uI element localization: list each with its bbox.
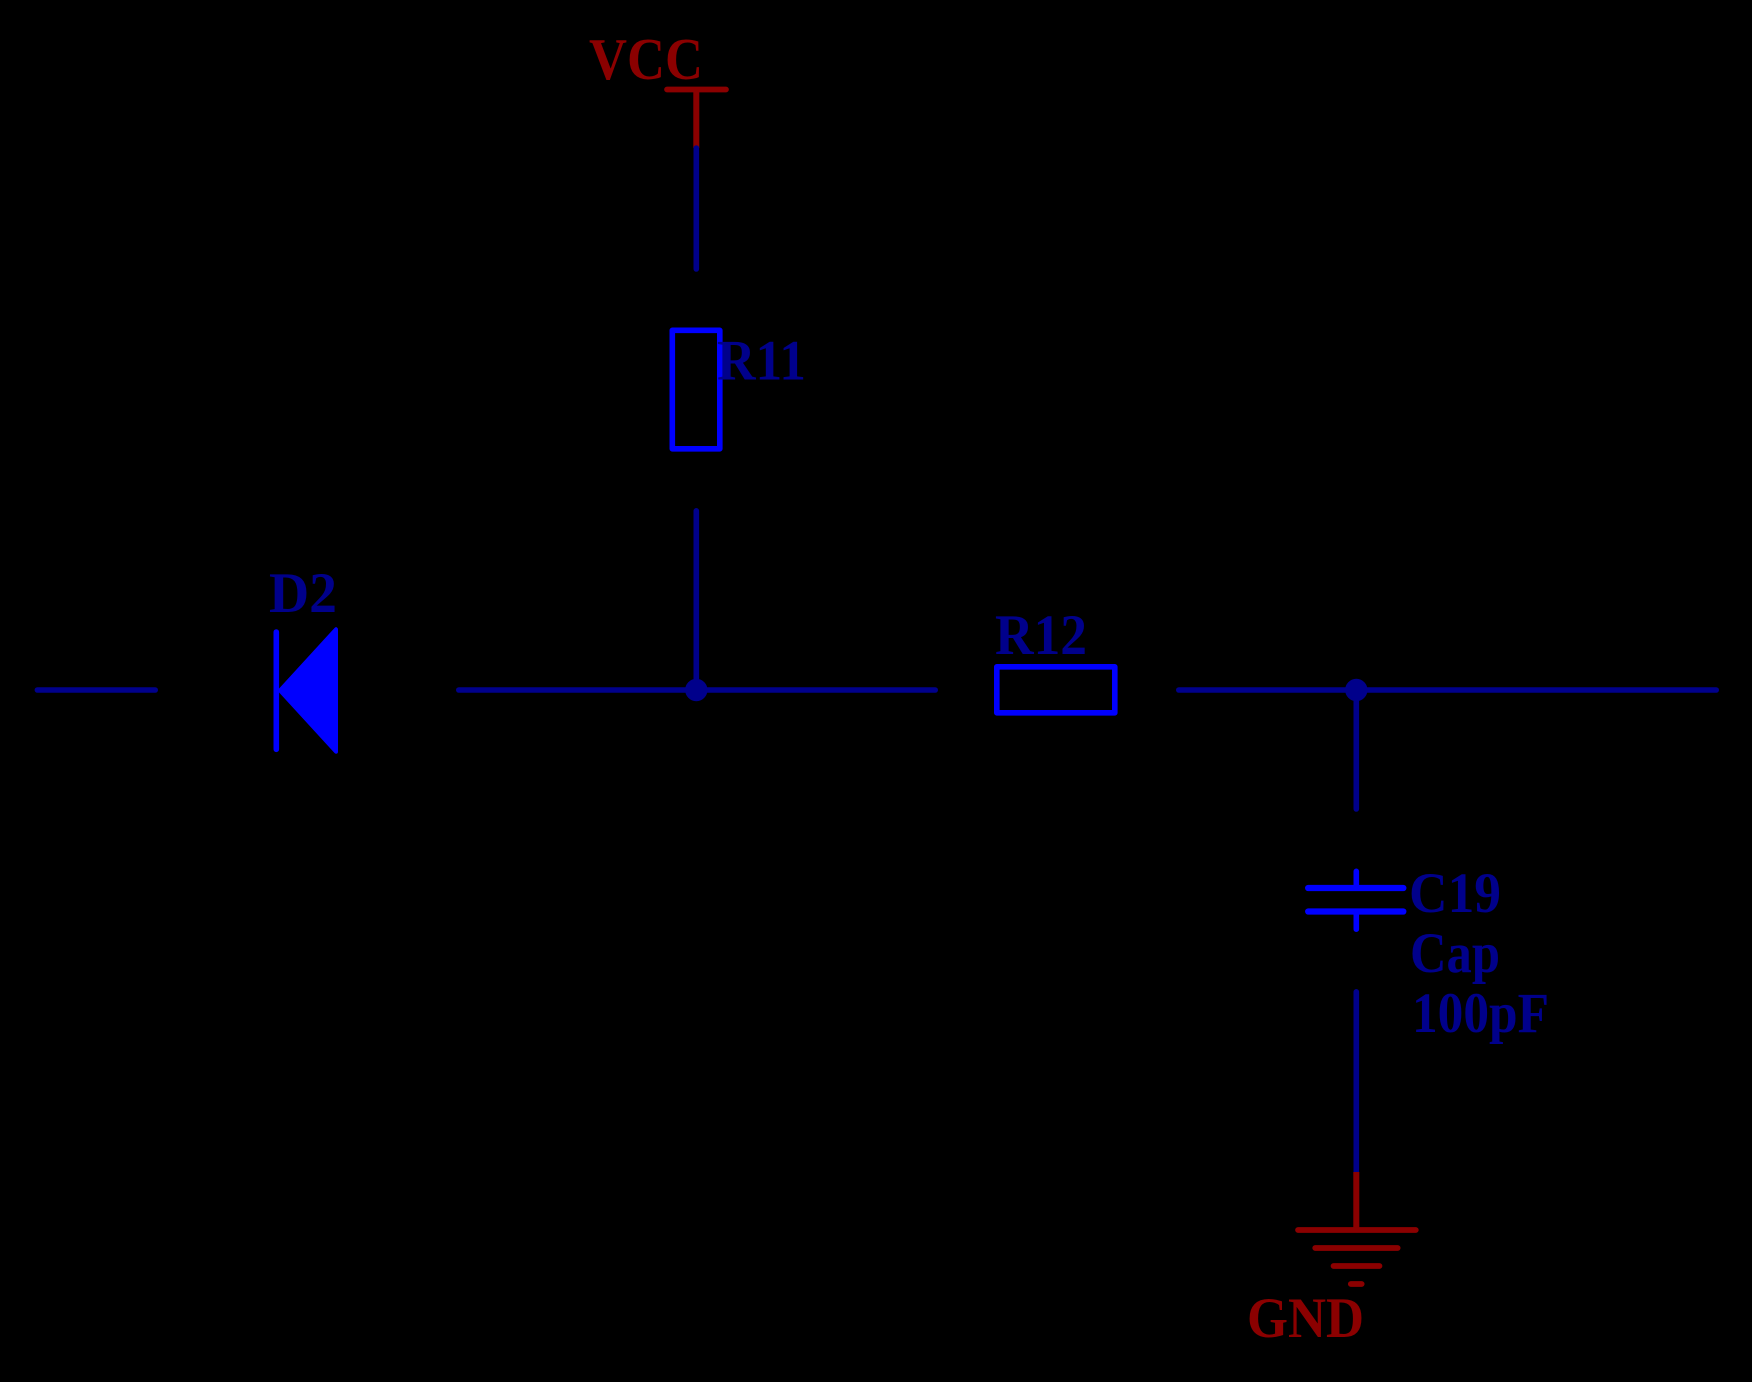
wire node B to C19: [1354, 690, 1360, 809]
wire diode to node A: [459, 687, 935, 693]
svg-text:100pF: 100pF: [1412, 982, 1549, 1045]
wire R12 to node B and right stub: [1179, 687, 1716, 693]
node A junction dot: [685, 679, 707, 701]
resistor R11: [672, 330, 720, 449]
wire R11 to node A: [693, 511, 699, 690]
anode triangle: [280, 629, 336, 751]
GND bar 2: [1315, 1245, 1398, 1251]
GND stem: [1353, 1172, 1359, 1230]
svg-text:R12: R12: [995, 604, 1087, 667]
GND bar 1: [1298, 1227, 1416, 1233]
power symbol VCC: [589, 26, 726, 148]
bottom plate: [1308, 908, 1403, 914]
GND bar 4: [1351, 1281, 1362, 1287]
wire left stub: [37, 687, 155, 693]
ground GND: [1247, 1172, 1416, 1350]
svg-text:C19: C19: [1409, 862, 1501, 925]
node B junction dot: [1345, 679, 1367, 701]
top plate: [1308, 885, 1403, 891]
VCC T-bar: [667, 87, 726, 93]
svg-text:VCC: VCC: [589, 26, 703, 92]
wire VCC to R11: [693, 148, 699, 269]
svg-text:GND: GND: [1247, 1287, 1364, 1350]
GND bar 3: [1334, 1263, 1380, 1269]
svg-text:D2: D2: [269, 562, 337, 625]
resistor R12: [997, 667, 1115, 713]
VCC stem: [693, 90, 699, 149]
wire C19 to GND: [1354, 992, 1360, 1172]
diode D2: [269, 562, 337, 752]
cathode bar: [273, 632, 279, 749]
top pin: [1354, 871, 1360, 888]
bottom pin: [1354, 912, 1360, 930]
svg-text:R11: R11: [717, 330, 806, 393]
svg-text:Cap: Cap: [1410, 922, 1500, 985]
capacitor C19: [1308, 862, 1549, 1045]
